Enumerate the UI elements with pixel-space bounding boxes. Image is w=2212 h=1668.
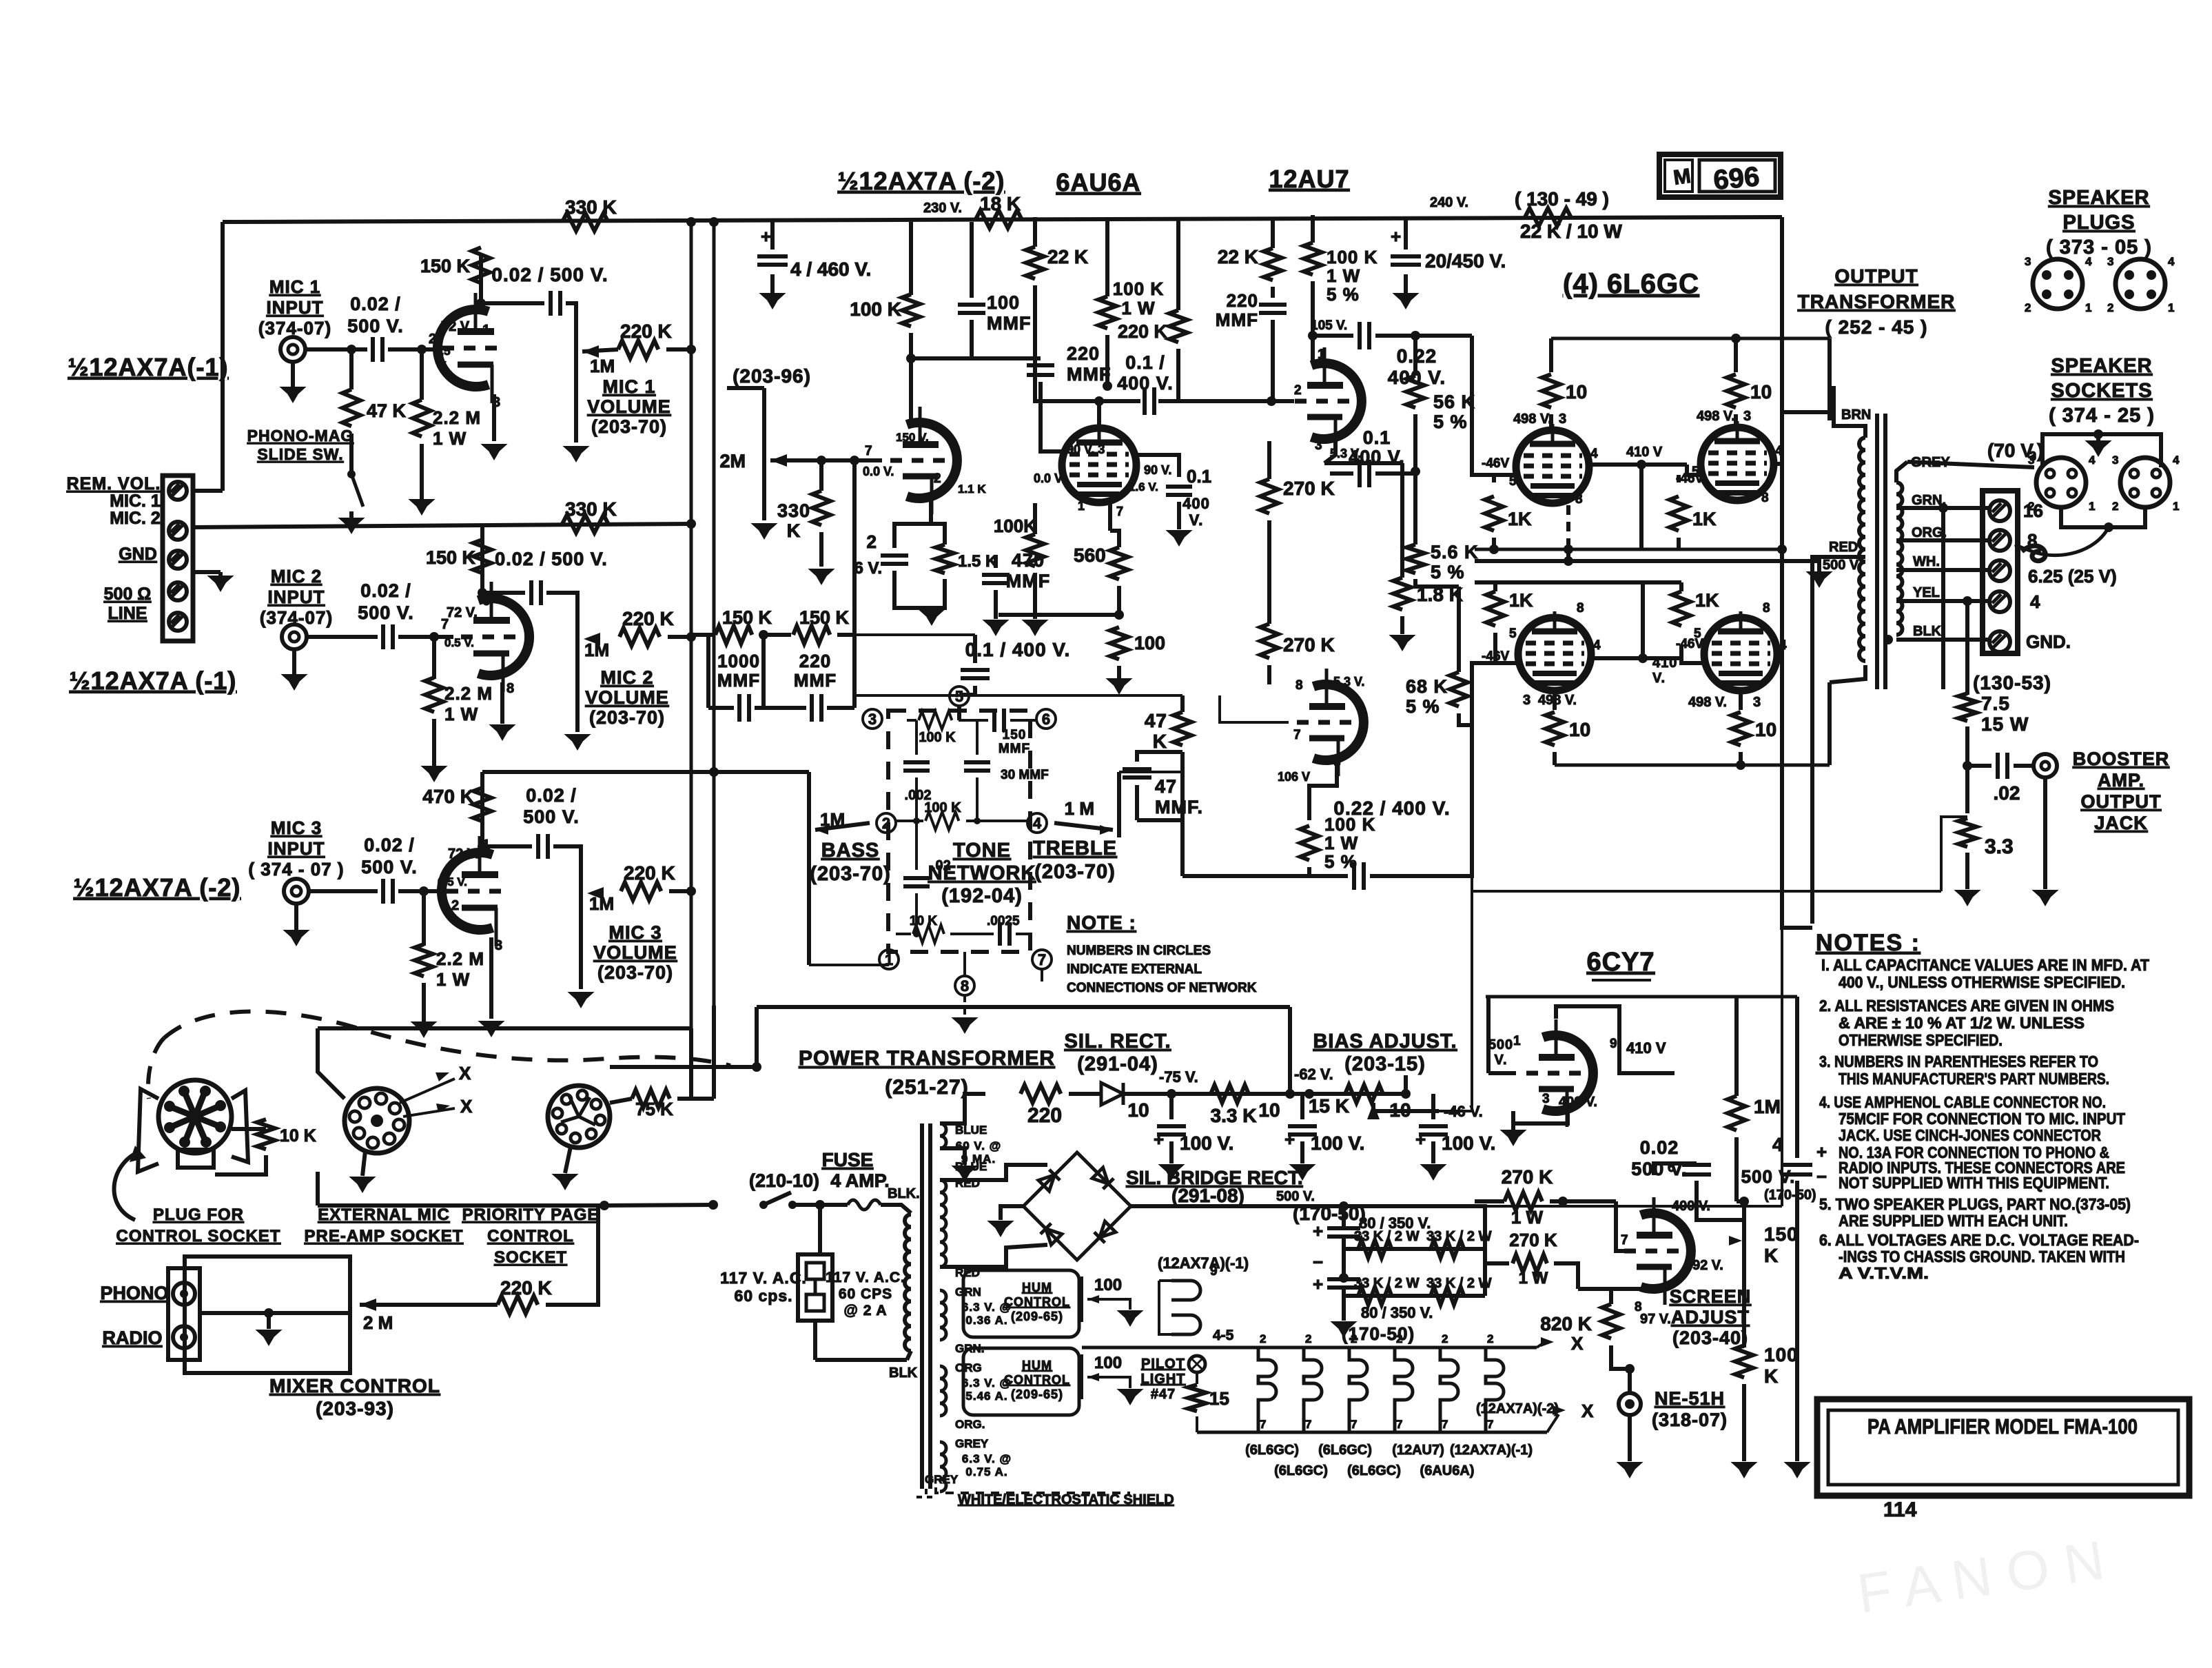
wire REM VOL to bus <box>193 489 223 493</box>
wiper hum1 <box>1087 1295 1099 1303</box>
wire treble bottom <box>1041 969 1043 982</box>
svg-text:( 374 - 07 ): ( 374 - 07 ) <box>248 859 344 879</box>
svg-text:MIC. 1: MIC. 1 <box>110 491 161 511</box>
dashed cable outline <box>164 1011 730 1066</box>
svg-text:SPEAKER: SPEAKER <box>2048 187 2149 209</box>
svg-text:0.02: 0.02 <box>1640 1137 1679 1158</box>
capacitor 0.02/500V coupling ch1 <box>551 291 560 316</box>
wire divider top <box>1267 441 1271 479</box>
svg-text:150: 150 <box>1003 728 1027 742</box>
wire hum2 wiper gnd <box>1087 1377 1130 1388</box>
bridge diode 4 <box>1094 1221 1116 1243</box>
junction <box>1558 1197 1568 1206</box>
ground jack2 <box>292 673 296 676</box>
capacitor 0.1/400V coupling <box>1145 387 1154 415</box>
junction <box>264 1308 274 1318</box>
wire 820K top <box>1611 1289 1654 1304</box>
svg-text:MIC 1: MIC 1 <box>269 276 320 297</box>
svg-text:( 374 - 25 ): ( 374 - 25 ) <box>2049 405 2155 427</box>
svg-text:5: 5 <box>1694 627 1701 641</box>
svg-text:4: 4 <box>1779 638 1787 653</box>
resistor 100K 1W 5% lower <box>1300 826 1318 860</box>
svg-text:HUM: HUM <box>1022 1359 1052 1372</box>
svg-text:47: 47 <box>1145 710 1167 731</box>
resistor 1M 6CY7 <box>1728 1096 1745 1130</box>
wire volume pot ch2 <box>575 630 580 732</box>
wire heater X top <box>1537 1342 1545 1347</box>
resistor 270K lower <box>1260 624 1278 658</box>
ground <box>2096 441 2100 443</box>
wire 150K pot element <box>1742 1201 1746 1265</box>
svg-text:498 V.: 498 V. <box>1688 695 1727 710</box>
wire to 56K <box>1413 336 1417 376</box>
wire cathode to 1.5K <box>931 524 945 545</box>
svg-text:0.02 /: 0.02 / <box>526 785 577 806</box>
wire jack1 to ground <box>291 362 295 386</box>
resistor 100K tone top <box>919 711 952 729</box>
svg-text:INPUT: INPUT <box>267 297 324 318</box>
svg-text:X: X <box>460 1096 473 1117</box>
screw terminal 6.25 <box>1989 560 2010 581</box>
wire ORG tap <box>1896 538 1990 542</box>
svg-text:LIGHT: LIGHT <box>1141 1372 1186 1387</box>
wire 220K to bus ch2 <box>668 635 691 639</box>
svg-text:8: 8 <box>506 681 514 696</box>
wire to 2.2M ch2 <box>432 637 436 679</box>
capacitor 10/100V bias 3 <box>1419 1126 1448 1135</box>
ground socket1 <box>360 1177 365 1179</box>
resistor 2.2M ch2 <box>425 678 443 712</box>
svg-text:100 K: 100 K <box>1327 247 1378 267</box>
svg-text:330: 330 <box>777 500 810 521</box>
capacitor 0.22/400V bottom <box>1354 862 1364 890</box>
wire plate ch2 <box>480 545 484 598</box>
wire treble wiper <box>1054 823 1113 830</box>
wire plate V5 to 0.1 cap <box>1099 399 1140 403</box>
wire to NE-51H <box>1628 1369 1632 1392</box>
svg-text:6: 6 <box>1042 711 1050 728</box>
ground 2.2M ch2 <box>432 766 436 768</box>
wire B+ to RED join <box>1782 917 1812 928</box>
svg-text:(6L6GC): (6L6GC) <box>1245 1443 1299 1458</box>
wire plug to 10K <box>232 1127 266 1131</box>
wire bias rail bottom left seg <box>1475 580 1568 584</box>
jack PHONO <box>173 1283 195 1305</box>
wire 220MMF to grid V5 <box>1041 382 1062 451</box>
wire to 2.2M ch1 <box>420 349 424 400</box>
junction <box>974 817 981 824</box>
wire HV to bridge top <box>940 1165 1047 1180</box>
wire tone mid b <box>966 820 1028 822</box>
junction <box>600 1201 609 1210</box>
svg-text:4: 4 <box>1590 447 1598 461</box>
svg-text:9: 9 <box>1210 1264 1218 1279</box>
ground 100K lower <box>1033 620 1037 622</box>
wire fb caps mid <box>755 706 806 710</box>
svg-text:1K: 1K <box>1508 509 1532 529</box>
svg-text:3.3: 3.3 <box>1985 835 2014 858</box>
svg-text:33 K / 2 W: 33 K / 2 W <box>1354 1229 1420 1244</box>
junction <box>2104 522 2113 532</box>
svg-text:498 V.: 498 V. <box>1538 693 1577 708</box>
svg-text:2: 2 <box>1260 1332 1266 1345</box>
wire 150K top ch2 <box>480 524 484 545</box>
svg-text:BLK: BLK <box>889 1365 918 1381</box>
svg-text:3: 3 <box>1559 411 1566 427</box>
heater loop 12AX7A <box>1171 1281 1200 1334</box>
svg-text:220 K: 220 K <box>622 608 674 629</box>
wire 1K TL to bias rail <box>1492 538 1496 549</box>
junction <box>1564 556 1573 566</box>
wire bus to 100MMF <box>970 222 974 298</box>
svg-text:8: 8 <box>1763 601 1770 616</box>
svg-text:GREY: GREY <box>955 1437 989 1450</box>
jack MIC1 input (374-07) <box>280 337 305 362</box>
svg-text:0.36 A.: 0.36 A. <box>965 1314 1007 1327</box>
wire cathode V6A <box>1324 439 1335 463</box>
svg-text:-46V: -46V <box>1482 456 1509 471</box>
resistor 270K 1W feed <box>1513 1254 1547 1272</box>
svg-text:(209-65): (209-65) <box>1011 1387 1063 1401</box>
svg-text:MIC 2: MIC 2 <box>271 566 322 587</box>
ground screen cap <box>1177 531 1181 532</box>
svg-text:SCREEN: SCREEN <box>1670 1286 1752 1307</box>
svg-text:(203-40): (203-40) <box>1672 1328 1748 1348</box>
svg-text:500 V.: 500 V. <box>358 602 414 623</box>
svg-text:270 K: 270 K <box>1283 478 1335 499</box>
resistor 220K mixer <box>498 1296 537 1314</box>
junction <box>913 817 920 824</box>
svg-text:+: + <box>1313 1221 1323 1241</box>
svg-text:4: 4 <box>2089 454 2096 467</box>
svg-text:ORG: ORG <box>955 1361 982 1374</box>
ground 2.2M ch1 <box>420 500 424 501</box>
junction <box>1883 635 1893 644</box>
svg-text:2: 2 <box>1487 1332 1493 1345</box>
svg-text:2: 2 <box>2107 301 2113 314</box>
None <box>940 1290 946 1340</box>
wire YEL tap <box>1896 599 1990 603</box>
title box PA AMPLIFIER MODEL FMA-100 <box>1817 1399 2189 1496</box>
wire bus to 22K <box>1033 217 1037 247</box>
wire 3.3 to gnd <box>1965 853 1969 889</box>
svg-text:7.5: 7.5 <box>1981 693 2010 714</box>
coil primary PT <box>905 1214 911 1351</box>
wire to 470MMF <box>999 613 1119 617</box>
svg-text:410 V: 410 V <box>1626 1039 1666 1057</box>
svg-text:5.3 V.: 5.3 V. <box>1330 447 1361 460</box>
svg-text:1K: 1K <box>1692 509 1717 529</box>
wire bass top <box>807 772 811 821</box>
wire cap to pot ch3 <box>553 846 581 884</box>
wire 22K to cap <box>1271 287 1275 298</box>
wire bass bottom to pin1 <box>809 964 889 966</box>
wire WH tap <box>1896 568 1990 572</box>
wire 22K to plate V5 <box>1035 285 1099 428</box>
svg-text:PRIORITY PAGE: PRIORITY PAGE <box>462 1206 600 1224</box>
capacitor 20/450V <box>1391 256 1421 265</box>
svg-text:(6AU6A): (6AU6A) <box>1420 1463 1475 1478</box>
wire B+ right drop <box>1780 217 1784 917</box>
junction <box>1114 610 1124 620</box>
svg-text:498 V.: 498 V. <box>1513 411 1552 427</box>
svg-text:7: 7 <box>1351 1418 1357 1431</box>
svg-text:100 K: 100 K <box>924 800 961 815</box>
svg-text:2 M: 2 M <box>363 1312 393 1333</box>
svg-text:JACK. USE CINCH-JONES CONNECT: JACK. USE CINCH-JONES CONNECTOR <box>1839 1126 2101 1144</box>
svg-text:THIS MANUFACTURER'S PART NUMBE: THIS MANUFACTURER'S PART NUMBERS. <box>1839 1070 2109 1088</box>
capacitor .02 tone <box>903 878 930 886</box>
wire to 68K <box>1457 587 1461 672</box>
svg-text:(210-10): (210-10) <box>749 1170 819 1191</box>
junction <box>1736 760 1745 770</box>
svg-text:22 K: 22 K <box>1047 246 1088 267</box>
wire bottom rail to fuse line <box>604 1205 713 1206</box>
ground 2M pot <box>762 524 766 525</box>
wire socket loop top <box>318 1026 691 1030</box>
wire fb drop <box>1471 876 1473 891</box>
svg-text:47 K: 47 K <box>367 400 407 421</box>
wire jack3 to cap <box>309 889 378 893</box>
wire pin5 into box <box>957 706 961 720</box>
svg-text:410 V: 410 V <box>1626 445 1663 460</box>
svg-text:YEL: YEL <box>1913 585 1940 600</box>
resistor 330K feedback ch2 <box>562 515 608 533</box>
svg-text:30 MMF: 30 MMF <box>1001 768 1049 782</box>
junction <box>1963 596 1972 606</box>
wire plate to coupling ch2 <box>482 591 525 595</box>
resistor 330K grid <box>812 491 830 525</box>
wire tone bot b <box>950 933 994 935</box>
wire bus to 100K V4 <box>909 222 913 295</box>
junction <box>1401 1089 1411 1099</box>
wire 4/500V to feed <box>1795 997 1799 1144</box>
speaker socket 2 <box>2120 458 2170 507</box>
svg-text:5.46 A.: 5.46 A. <box>965 1390 1007 1403</box>
heater loop tube 4 <box>1395 1347 1413 1432</box>
wire 2.2M to gnd ch3 <box>422 983 426 1022</box>
node 4 circle <box>1027 813 1047 833</box>
svg-text:.0025: .0025 <box>987 914 1020 928</box>
svg-text:( 373 - 05 ): ( 373 - 05 ) <box>2046 236 2152 258</box>
wire rail to 10 ohm TL <box>1549 338 1553 372</box>
wire socket gnd rail <box>2042 434 2161 467</box>
resistor 1K TR <box>1670 496 1688 531</box>
svg-text:1: 1 <box>2173 500 2179 513</box>
tone network dashed box <box>888 711 1030 952</box>
svg-text:VOLUME: VOLUME <box>593 942 677 963</box>
svg-text:2: 2 <box>882 815 890 832</box>
svg-text:CONNECTIONS OF NETWORK: CONNECTIONS OF NETWORK <box>1067 981 1257 995</box>
junction <box>759 1201 768 1209</box>
wire grid V7B <box>1616 1201 1625 1251</box>
svg-text:CONTROL: CONTROL <box>487 1227 574 1245</box>
svg-text:400 V., UNLESS OTHERWISE SPECI: 400 V., UNLESS OTHERWISE SPECIFIED. <box>1839 973 2125 991</box>
svg-text:NETWORK: NETWORK <box>928 862 1036 884</box>
svg-text:+: + <box>1284 1129 1295 1150</box>
svg-text:NOTES :: NOTES : <box>1816 930 1921 956</box>
wire to 20/450V cap <box>1404 219 1408 250</box>
resistor 33K/2W c <box>1358 1287 1391 1305</box>
svg-text:8: 8 <box>961 977 969 995</box>
svg-text:500 V.: 500 V. <box>1631 1159 1688 1179</box>
wire bus to 22K right <box>1271 217 1275 248</box>
wire priority drop left <box>755 1007 759 1067</box>
speaker socket 1 <box>2036 458 2086 507</box>
svg-text:15 W: 15 W <box>1981 713 2029 735</box>
transformer T2 electrostatic shield <box>916 1489 936 1497</box>
resistor 56K <box>1406 376 1424 408</box>
svg-text:150 K: 150 K <box>426 547 476 568</box>
capacitor 0.1/400V tone symbol <box>961 670 990 678</box>
node 1 circle <box>879 950 899 969</box>
wiper arrow vol3 <box>587 887 604 899</box>
ground NE-51H <box>1628 1463 1632 1464</box>
resistor 820K <box>1602 1304 1620 1339</box>
svg-text:VOLUME: VOLUME <box>585 687 669 708</box>
junction <box>709 217 719 227</box>
svg-text:4: 4 <box>2030 591 2040 612</box>
svg-text:4-5: 4-5 <box>1213 1328 1234 1343</box>
wire rail bottom to OT <box>1827 682 1832 765</box>
svg-text:75MCIF FOR CONNECTION TO MIC.: 75MCIF FOR CONNECTION TO MIC. INPUT <box>1839 1110 2125 1128</box>
svg-text:117 V. A.C.: 117 V. A.C. <box>720 1269 807 1287</box>
svg-text:1 W: 1 W <box>433 428 467 449</box>
wire primary bottom to RED <box>1830 665 1865 682</box>
wire gnd stem <box>2096 434 2100 441</box>
bridge diode 1 <box>1038 1170 1060 1191</box>
ground mixer <box>267 1330 271 1332</box>
resistor 1.8K <box>1393 578 1411 610</box>
jack RADIO <box>173 1326 195 1348</box>
coil primary OT <box>1859 438 1865 661</box>
svg-text:V.: V. <box>1189 511 1204 529</box>
wire treble top to 47K <box>1119 771 1182 773</box>
svg-text:220: 220 <box>1027 1104 1062 1127</box>
wire heater return <box>1159 1281 1171 1334</box>
diode SIL.RECT. (291-04) <box>1101 1083 1123 1105</box>
wire 2.2M to gnd ch2 <box>432 719 436 766</box>
svg-text:0.1: 0.1 <box>1187 466 1211 487</box>
screw terminal LINE <box>169 613 187 631</box>
svg-text:OUTPUT: OUTPUT <box>1834 265 1918 287</box>
svg-text:10: 10 <box>1755 719 1776 740</box>
svg-text:2.2 M: 2.2 M <box>444 683 493 704</box>
svg-text:100 K: 100 K <box>919 730 956 745</box>
svg-text:330 K: 330 K <box>565 498 617 520</box>
jack MIC2 input (374-07) <box>282 624 307 649</box>
wire grid V7A <box>1488 1071 1516 1075</box>
svg-text:400 V.: 400 V. <box>1117 373 1174 394</box>
wire pin4 BL to 410V <box>1592 656 1643 660</box>
junction <box>1304 1089 1314 1099</box>
wire heater bus bottom <box>1197 1431 1547 1434</box>
svg-text:100 K: 100 K <box>1113 278 1164 299</box>
svg-text:60 cps.: 60 cps. <box>735 1287 793 1305</box>
capacitor .002 <box>903 762 930 771</box>
wire bias rail bottom tubes <box>1568 580 1681 584</box>
svg-text:K: K <box>1153 731 1167 752</box>
wire divider to V6B grid <box>1267 665 1271 684</box>
wire cathode ch2 <box>500 682 504 724</box>
wire plate V7A <box>1556 1006 1619 1055</box>
svg-text:0.5 V.: 0.5 V. <box>444 636 474 649</box>
svg-text:VOLUME: VOLUME <box>587 396 671 417</box>
capacitor 150 MMF <box>994 709 1004 732</box>
None <box>940 1180 946 1267</box>
wire to 5.6K <box>1413 474 1417 545</box>
wire 2M pot element <box>762 388 766 520</box>
svg-text:+: + <box>1154 1129 1164 1150</box>
screw terminal MIC2 <box>169 522 187 540</box>
svg-text:500 V.: 500 V. <box>523 806 580 827</box>
svg-text:(203-15): (203-15) <box>1344 1053 1426 1075</box>
wire 68K to grid bus <box>1459 713 1472 725</box>
svg-text:90 V. 3: 90 V. 3 <box>1067 443 1105 456</box>
svg-text:PHONO-MAG: PHONO-MAG <box>247 427 354 445</box>
svg-text:.02: .02 <box>1994 782 2020 804</box>
svg-text:500 Ω: 500 Ω <box>104 584 152 604</box>
svg-text:18 K: 18 K <box>980 193 1021 214</box>
wire 100K lower to rail <box>1307 867 1311 876</box>
wire line low <box>813 1321 817 1360</box>
wire pin4 TR to B+ <box>1774 462 1782 466</box>
svg-text:220 K: 220 K <box>624 862 675 884</box>
wire bias cap 3 <box>1431 1094 1435 1119</box>
svg-text:5: 5 <box>955 688 963 705</box>
svg-text:INPUT: INPUT <box>268 838 325 859</box>
capacitor 470 MMF <box>982 575 1010 583</box>
svg-text:ORG.: ORG. <box>955 1418 985 1431</box>
svg-text:117 V. A.C.: 117 V. A.C. <box>826 1270 905 1285</box>
wire fb left riser <box>706 635 710 708</box>
capacitor 0.02/500V input ch1 <box>373 337 382 362</box>
wire 2M wiper to V4 grid <box>770 458 882 462</box>
svg-text:498 V.: 498 V. <box>1697 409 1735 424</box>
svg-text:1 W: 1 W <box>444 704 478 724</box>
svg-text:GRN: GRN <box>955 1285 981 1299</box>
svg-text:−: − <box>1313 1252 1323 1272</box>
wire mix to gnd <box>267 1313 271 1329</box>
None <box>940 1123 946 1148</box>
svg-text:+: + <box>761 226 771 247</box>
svg-text:SPEAKER: SPEAKER <box>2051 355 2152 377</box>
wire plate BR down <box>1739 692 1743 710</box>
svg-text:3: 3 <box>1753 695 1761 710</box>
wire feed join <box>1578 1287 1611 1291</box>
svg-text:3: 3 <box>2107 255 2113 268</box>
svg-text:10 K: 10 K <box>910 914 937 928</box>
resistor 47K grid <box>1174 712 1191 745</box>
capacitor 80/350V upper <box>1327 1228 1360 1237</box>
svg-text:SOCKET: SOCKET <box>494 1248 567 1267</box>
svg-text:(209-65): (209-65) <box>1011 1310 1063 1323</box>
wire socket loop left <box>318 1028 345 1099</box>
resistor 15K pot <box>1345 1085 1383 1103</box>
svg-text:400 V.: 400 V. <box>1559 1095 1597 1110</box>
wire V6B out <box>1309 760 1337 820</box>
wire to primary bottom <box>815 1358 907 1362</box>
svg-text:5 %: 5 % <box>1406 696 1440 717</box>
wire cap fb2 lead <box>827 706 854 710</box>
wire hum pot 2 <box>1081 1354 1083 1399</box>
tube V10 6L6GC bottom-left <box>1518 618 1591 691</box>
socket priority page control <box>548 1086 610 1148</box>
wire 1M down <box>1734 1137 1739 1201</box>
svg-text:106 V: 106 V <box>1278 770 1310 784</box>
svg-text:INDICATE EXTERNAL: INDICATE EXTERNAL <box>1067 962 1202 977</box>
wire cathode TL <box>1566 505 1570 549</box>
